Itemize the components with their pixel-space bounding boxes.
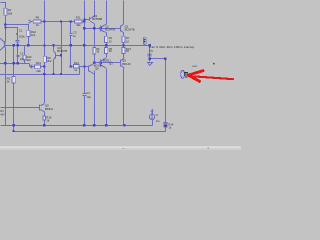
svg-text:39: 39 [109,49,112,53]
wire c10 below Q6 [94,71,96,126]
wire left rail below transistor Q10 [5,48,7,126]
node bus1 c5 [43,44,45,46]
node bus1 c9 [83,44,85,46]
node bus1 c3 [16,44,18,46]
wire busB [14,131,166,133]
wire busA corner to I1 [152,120,154,126]
status bar tick 2 [123,148,125,149]
resistor R3 body (on c2) [12,77,15,83]
resistor R10 body [27,30,30,36]
status bar [0,148,241,151]
capacitor C2 plates [17,56,20,57]
net flag box V3 [164,122,167,127]
node busB jog [13,130,15,132]
wire R4 to bus1 [106,43,108,46]
node mid row c1 [4,62,6,64]
node bus1 c11 [105,44,107,46]
wire column c10 top [94,1,96,17]
svg-text:10: 10 [126,39,129,43]
status bar tick [208,148,210,150]
svg-text:4k7: 4k7 [0,112,5,116]
wire row1 between R9 and R11 [41,21,75,23]
node row3 Q1 base [100,27,102,29]
transistor Q8 [101,58,107,68]
transistor Qa (current mirror, top) [90,16,95,23]
resistor R2 body [4,8,7,15]
resistor R8 body [43,56,46,62]
node row2a left [4,23,6,25]
node bus1 c2 [12,44,14,46]
wire I1 top stub [152,111,154,115]
wire R13 stub top [24,46,26,56]
probe symbol at output [181,70,188,78]
svg-text:BC547B: BC547B [125,28,135,32]
red annotation arrow head [188,71,203,76]
node busA c11 [105,124,107,126]
capacitor C1 plates [16,40,20,42]
svg-text:BD140: BD140 [122,62,131,66]
svg-text:Q3: Q3 [109,62,113,66]
resistor R16 body (QB emitter) [43,116,46,120]
wire c6 Q4 emitter down [53,60,55,75]
transistor QB (bottom left) [40,104,45,112]
wire R14 to c5 [41,66,45,68]
svg-text:R11: R11 [76,15,81,19]
wire R15 stub [123,46,125,48]
wire jog busA to busB [13,126,15,132]
wire column c7 [61,22,63,75]
transistor Q10 (left edge, cut off) [0,38,5,50]
svg-text:BC547B: BC547B [105,28,115,32]
wire flag box stub upper [149,46,151,55]
wire busB corner up to V3 box [165,128,167,132]
wire row2b to C1 branch [6,28,18,41]
svg-text:10p: 10p [86,95,91,99]
wire Q4 base stub [56,55,62,57]
wire column c12 top [123,1,125,25]
wire left rail down from row2 [5,25,7,42]
transistor Q2 (diff pair right) [120,24,123,32]
wire column c5 to busA [44,120,46,126]
wire row1 input segment [32,21,34,23]
wire column c11 top [106,1,108,25]
wire R13 bottom to mid row [24,60,26,64]
svg-text:R12: R12 [74,61,79,65]
wire c6 Q4 collector stub [53,46,55,51]
node busA c12 [123,124,125,126]
node row1 c9 [83,20,85,22]
svg-text:Q5: Q5 [122,59,126,63]
wire column c8 upper to C3 [70,22,72,34]
node R12 row c8 [69,65,71,67]
resistor R4 body [105,36,108,42]
wire R5 to Q8 collector [106,54,108,58]
node out row Q8 base [100,61,102,63]
svg-text:10: 10 [109,39,112,43]
wire column c5 top [44,1,46,57]
wire R7 to bus1 [123,43,125,46]
wire column c9 top [84,1,86,94]
resistor R13 body [23,55,26,60]
wire bus1 [6,45,151,47]
svg-text:10k: 10k [76,23,81,27]
resistor R15 body [122,47,125,53]
wire C2 to mid row [17,57,19,64]
node gnd row right corner [164,57,166,59]
svg-text:uic: uic [149,48,153,52]
wire c10 row3 to out row [94,29,96,63]
svg-text:1k8: 1k8 [8,11,13,15]
svg-text:R9: R9 [36,16,40,20]
wire arrow to R14 [30,66,35,68]
svg-text:1n: 1n [73,34,76,38]
wire Qa base stub [85,19,90,21]
resistor R6 body [93,47,96,54]
wire column c5 mid [44,63,46,104]
transistor Q7 [121,58,125,68]
node Qa base [83,19,85,21]
wire out row [95,62,121,64]
wire R2 bottom to row2 node [5,16,7,25]
svg-text:2k2: 2k2 [47,59,52,63]
wire row3 base row [85,28,121,30]
svg-text:BC556B: BC556B [92,17,102,21]
wire left-bottom base row [1,107,40,109]
wire R12 row left [71,66,74,68]
svg-text:22k: 22k [36,69,41,73]
wire gnd row [150,58,166,60]
node bus2 c6 [52,73,54,75]
node row1 c5 [43,20,45,22]
transistor Q1 (diff pair left) [101,24,107,32]
capacitor C4 plates [83,94,87,96]
wire bus2 [0,74,80,76]
resistor R5 body [105,47,108,53]
wire busA [1,125,153,127]
wire column c9 below C4 [84,96,86,126]
resistor R9 body [33,20,41,23]
node gnd row left [149,57,151,59]
node c5 R14 join [43,65,45,67]
wire column c3 lower to C2 [17,46,19,56]
resistor R7 body [122,36,125,42]
wire c12 below Q7 [123,69,125,126]
wire column c2 lower [13,84,15,126]
node row3 c10 [93,27,95,29]
resistor R11 body [75,20,83,23]
node Q4 base on c7 [60,54,62,56]
wire row1 after R11 [83,21,85,23]
wire c10 Qa emitter to row3 [94,24,96,29]
node bus1 c6 [52,44,54,46]
wire top-left feed [1,3,6,9]
wire c11 below Q8 [106,69,108,126]
wire ground stub [149,59,151,62]
svg-text:C2: C2 [20,52,24,56]
node row1 c8 [70,20,72,22]
svg-text:tran 0 40m 20m 100ns startup: tran 0 40m 20m 100ns startup [149,45,194,49]
wire mid row [0,63,30,65]
transistor Q4 [54,51,56,60]
node row2b left [4,26,6,28]
wire Q2 emitter to R7 [123,33,125,37]
svg-text:C4: C4 [86,91,90,95]
capacitor C3 plates [70,34,73,36]
node bus2 c5 [43,73,45,75]
status bar divider [0,146,241,147]
wire R15 to Q7 collector [123,54,125,58]
transistor Q6 [89,63,95,74]
svg-text:39: 39 [96,49,99,53]
wire C1 to bus1 [17,42,19,46]
svg-text:39: 39 [126,49,129,53]
port arrow at R14 [30,65,33,68]
wire column c8 lower [70,46,72,67]
wire R5 stub [106,46,108,48]
node busA c5 [43,124,45,126]
red annotation arrow tail [195,76,234,79]
wire V3 box to gnd row [165,59,167,123]
svg-text:Q6: Q6 [95,67,99,71]
wire bus2 corner up to R12 [79,67,81,75]
resistor R14 body [35,65,41,68]
node mid row c2 [12,62,14,64]
current source I1 [149,109,154,120]
node bus2 c7 [60,73,62,75]
svg-text:C1: C1 [19,29,23,33]
red dot annotation [213,63,215,65]
svg-text:10n: 10n [20,57,25,61]
capacitor C1 polarity mark [16,33,17,34]
node busA c9 [83,124,85,126]
svg-text:R14: R14 [36,61,41,65]
node mid row c3 [16,62,18,64]
svg-text:out: out [192,64,196,68]
wire C3 to bus1 [70,36,72,46]
node row1 c7 [60,20,62,22]
wire row2a [6,25,29,31]
node R12 row c9 [83,65,85,67]
net flag box V1 [148,54,151,56]
input port arrow [28,20,31,24]
wire column c5 QB emitter [44,112,46,116]
resistor R12 body (in bus2) [73,65,79,69]
node bus1 right end [149,44,151,46]
node bus1 c R10 [27,44,29,46]
wire flag box stub lower [149,56,151,59]
wire mid row corner down [29,64,31,67]
svg-text:BC557B: BC557B [57,49,67,53]
wire column c2 upper [13,46,15,77]
node out row c10 [93,61,95,63]
node bus1 c12 [122,44,124,46]
ground [148,63,153,66]
svg-text:BD911: BD911 [45,107,54,111]
wire Q1 emitter to R4 [106,33,108,37]
wire R10 to bus1 [28,37,30,46]
node busA c2 jog [12,124,14,126]
net flag box V2 [143,38,146,44]
svg-text:2k2: 2k2 [27,58,32,62]
node row3 c9 [83,27,85,29]
wire V2 box stub [144,44,146,46]
svg-text:100u: 100u [19,34,25,38]
node busA c10 [93,124,95,126]
svg-text:1k4: 1k4 [31,33,36,37]
wire R12 row right [79,66,89,68]
node bus1 c8 [70,44,72,46]
